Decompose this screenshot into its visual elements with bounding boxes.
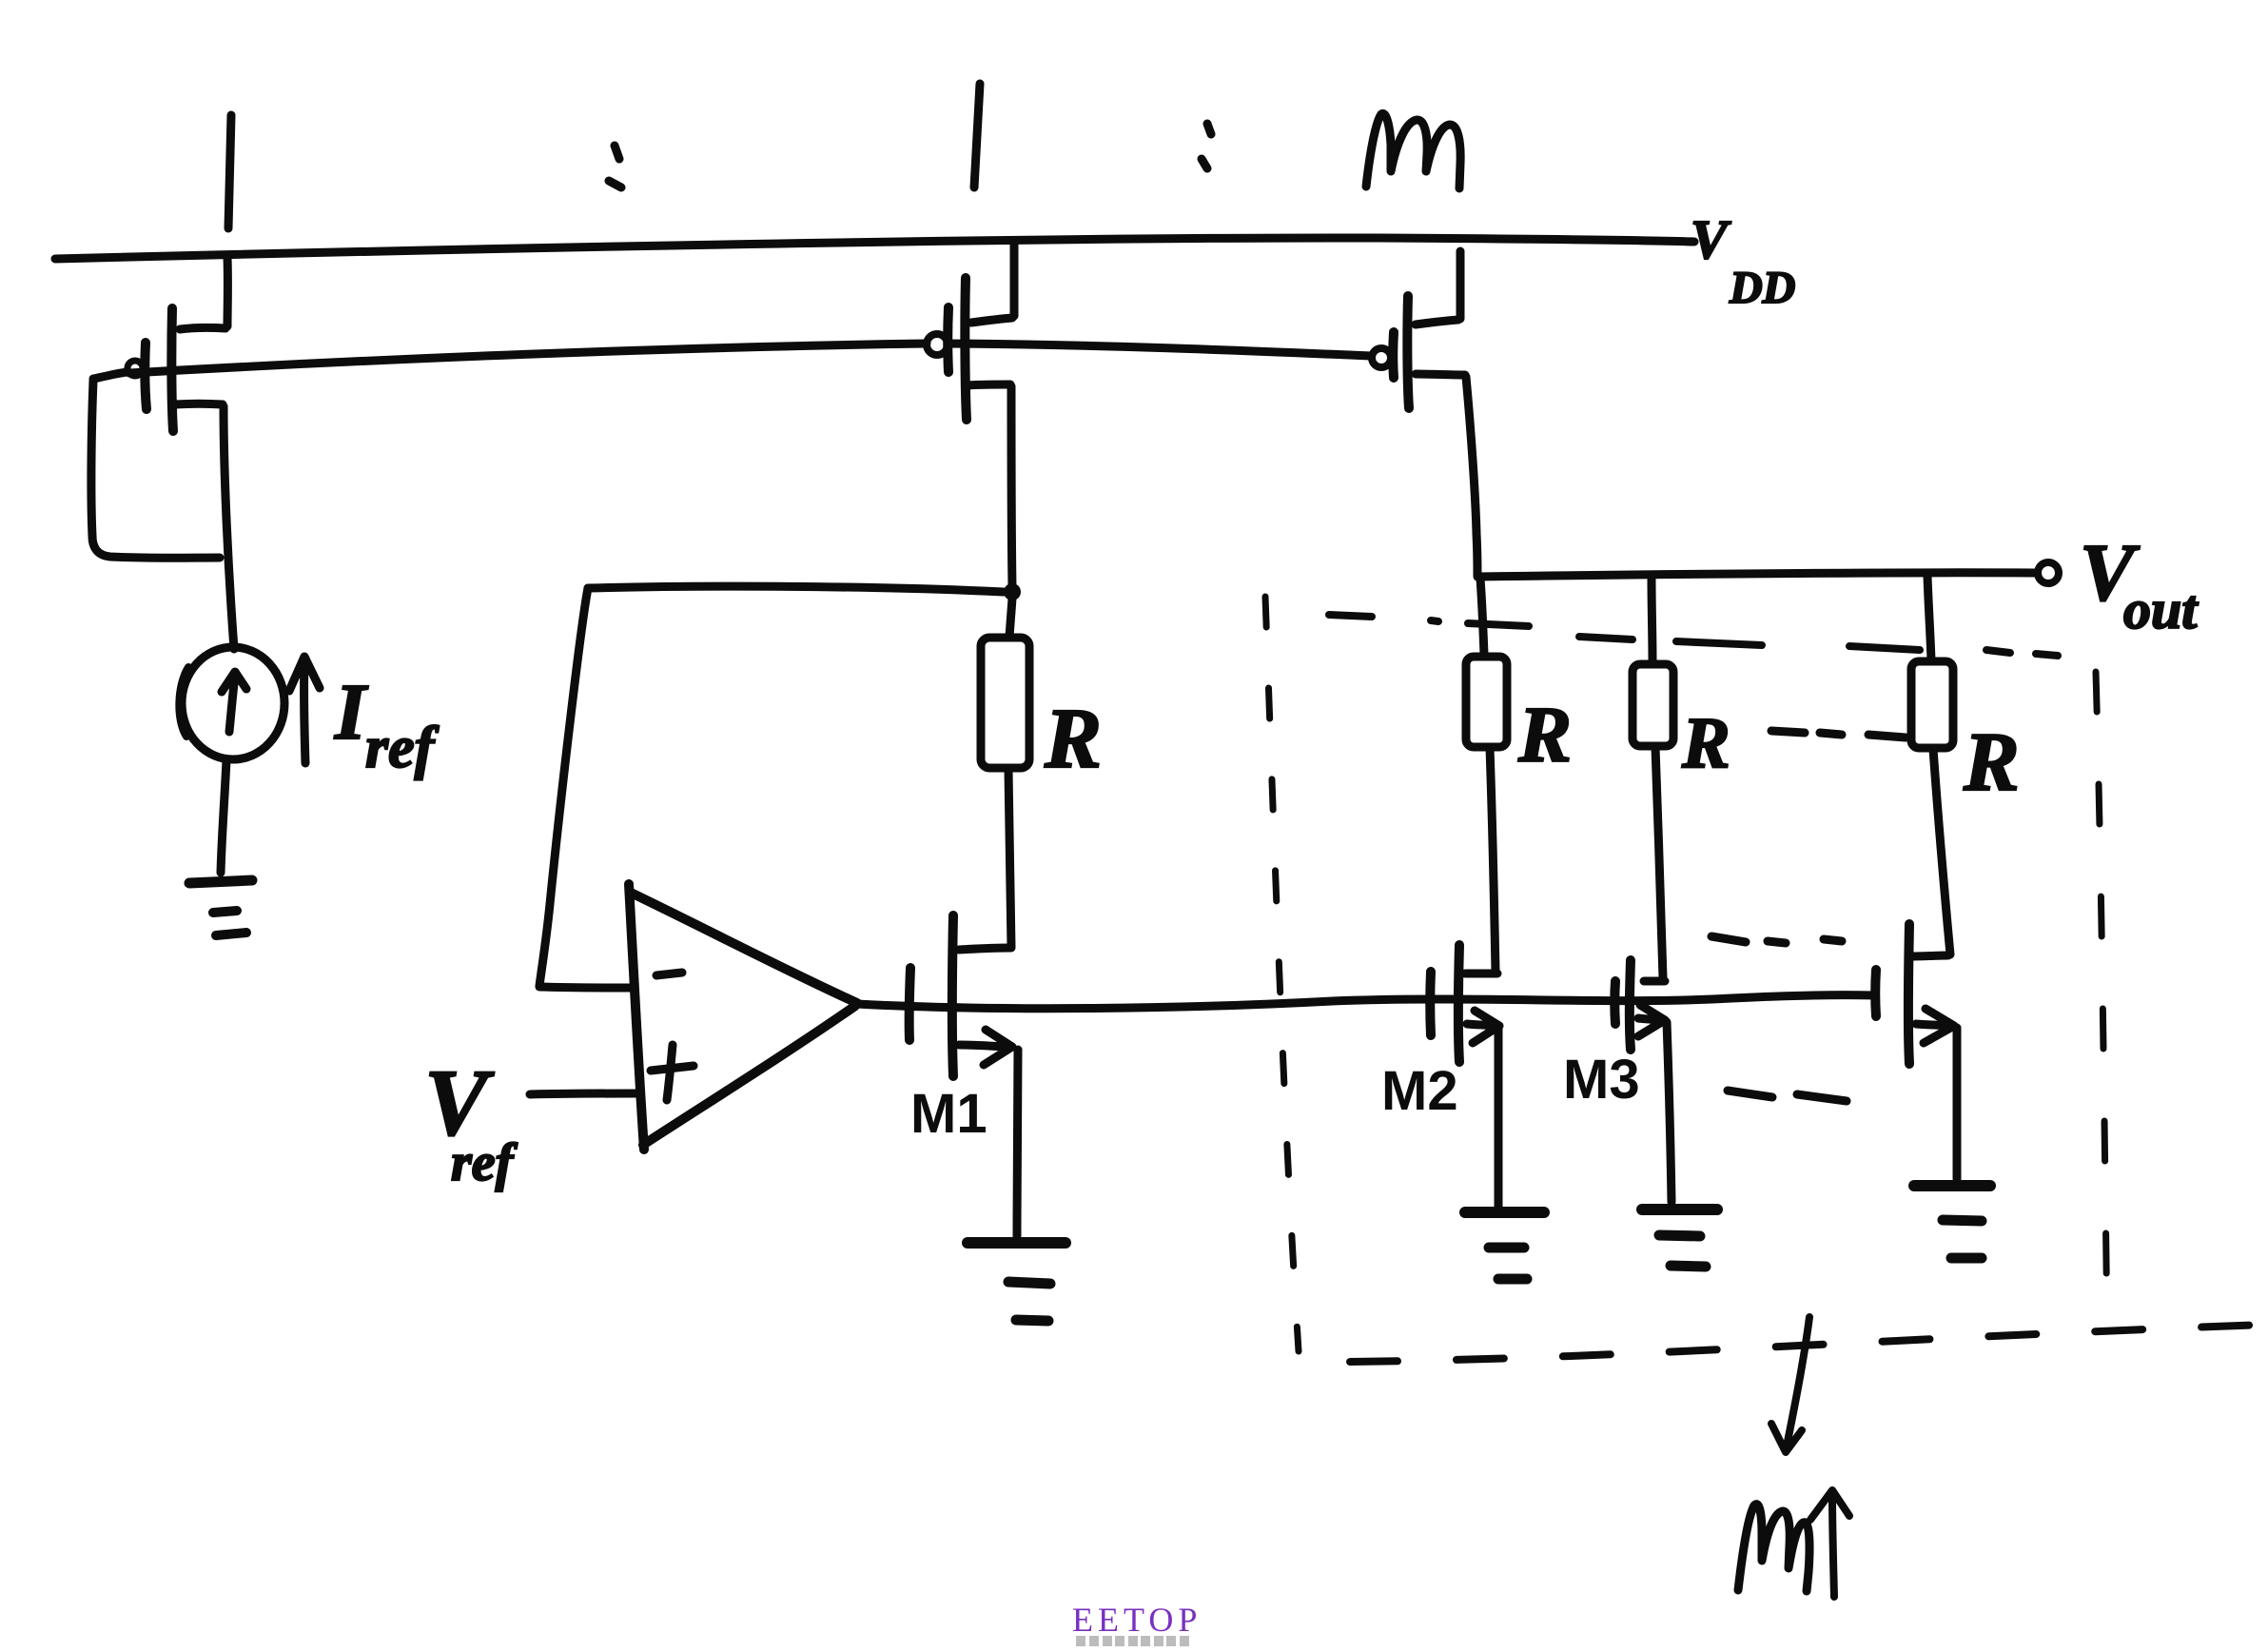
op-amp minus input label	[656, 973, 682, 975]
wire PMOS mirror gate bus	[129, 344, 1371, 373]
wire feedback to op-amp inverting input	[539, 987, 630, 988]
svg-text:DD: DD	[1729, 263, 1795, 313]
wire R1 bottom to M1 drain	[1008, 770, 1011, 948]
current source sketch double-stroke	[179, 667, 188, 737]
wire current source to ground	[221, 760, 226, 873]
ratio tick 1 (left)	[228, 115, 231, 228]
wire Mm source to ground	[1953, 1028, 1962, 1179]
resistor R3	[1633, 664, 1673, 746]
transistor M2 drain lead	[1465, 970, 1497, 978]
transistor M1 gate bar	[909, 968, 910, 1040]
ground (M3)	[1642, 1204, 1717, 1215]
dashed box top edge (dash-dot)	[1329, 615, 2058, 656]
wire branch 2 from Vout junction to R3	[1652, 579, 1652, 663]
wire R3 to M3 drain	[1655, 747, 1663, 978]
transistor M0 (diode-connected PMOS, left) source wire from VDD	[224, 257, 232, 326]
ground (M1)	[968, 1237, 1066, 1249]
transistor P2 gate bar	[1388, 332, 1398, 378]
transistor M0 gate lead	[93, 372, 127, 379]
svg-text:ref: ref	[365, 716, 440, 780]
op-amp U1 left edge	[629, 884, 644, 1150]
wire M3 source to ground	[1667, 1022, 1672, 1202]
transistor M0 gate bar	[145, 343, 147, 409]
node A (feedback node dot)	[1004, 583, 1021, 600]
op-amp U1 top edge	[631, 893, 857, 1003]
transistor Mm drain lead	[1910, 955, 1948, 956]
ground (M2)	[1465, 1207, 1544, 1218]
transistor P1 gate bubble	[927, 334, 948, 355]
svg-text:R: R	[1044, 692, 1102, 786]
transistor P1 source lead	[971, 318, 1012, 323]
transistor M0 source lead	[180, 327, 225, 329]
Vout rail	[1477, 573, 2036, 577]
wire NMOS gate bus from op-amp output	[857, 995, 1875, 1009]
arrow Iref direction (beside circle)	[289, 657, 320, 763]
svg-text:R: R	[1681, 703, 1730, 783]
ellipsis dashes between R3 and R4	[1771, 731, 1906, 737]
wire branch 3 from Vout junction to R4	[1927, 576, 1931, 660]
resistor R1	[981, 638, 1029, 768]
transistor P2 source lead	[1416, 320, 1458, 324]
ratio label m (handwritten)	[1366, 113, 1460, 188]
transistor P1 channel bar	[965, 278, 967, 420]
transistor Mm channel bar	[1908, 924, 1909, 1064]
svg-text:M2: M2	[1381, 1060, 1458, 1122]
transistor P2 drain lead	[1416, 374, 1465, 375]
transistor Mm source lead with arrow	[1916, 1009, 1954, 1043]
wire P2 drain down to Vout rail	[1466, 377, 1477, 576]
VDD rail	[55, 238, 1694, 259]
transistor P1 (middle PMOS) source wire from VDD	[1010, 241, 1019, 316]
transistor M3 drain lead	[1644, 977, 1665, 986]
svg-text:I: I	[334, 668, 369, 757]
ground (Mm)	[1914, 1180, 1990, 1191]
wire P1 drain down to node A	[1011, 386, 1012, 586]
ground (current source)	[189, 880, 252, 883]
current source internal up arrow	[222, 672, 246, 732]
arrow up (bottom m count)	[1810, 1490, 1849, 1597]
arrow into dashed box (m replicas)	[1771, 1317, 1809, 1452]
transistor M1 drain lead	[959, 948, 1010, 950]
resistor R2	[1466, 657, 1507, 747]
transistor M3 channel bar	[1630, 960, 1631, 1050]
watermark Chinese subtitle (drawn as gray glyph blocks)	[1076, 1636, 1189, 1646]
svg-text:out: out	[2123, 579, 2199, 640]
transistor P2 gate bubble	[1372, 348, 1391, 367]
resistor R4	[1911, 661, 1953, 748]
wire branch 1 from Vout junction to R2	[1480, 579, 1484, 655]
wire node A to resistor R1	[1009, 599, 1012, 637]
dashed box bottom edge	[1350, 1325, 2264, 1362]
svg-text:ref: ref	[451, 1133, 518, 1192]
svg-text:R: R	[1963, 717, 2020, 809]
ellipsis dashes between M3 and Mm drains	[1711, 936, 1842, 943]
terminal Vout (open circle)	[2038, 562, 2059, 583]
transistor P2 (right PMOS) source wire from VDD	[1457, 251, 1465, 319]
transistor M2 source lead with arrow	[1467, 1011, 1499, 1043]
svg-text:V: V	[1691, 208, 1731, 270]
svg-text:R: R	[1517, 691, 1572, 779]
wire M2 source to ground	[1495, 1028, 1503, 1208]
dashed box left edge	[1265, 597, 1299, 1351]
transistor M0 channel bar	[171, 308, 173, 431]
ratio colon (left)	[609, 146, 621, 187]
op-amp plus input label	[651, 1045, 694, 1100]
transistor P1 gate bar	[943, 307, 953, 372]
transistor P2 channel bar	[1407, 296, 1409, 408]
transistor M3 gate bar	[1610, 981, 1620, 1024]
transistor M2 gate bar	[1425, 972, 1436, 1035]
transistor M1 channel bar	[952, 915, 953, 1076]
ratio colon (right)	[1202, 124, 1211, 168]
transistor M0 gate bubble	[127, 361, 143, 376]
ratio tick 1 (middle)	[974, 84, 980, 187]
wire M1 source to ground	[1017, 1050, 1018, 1236]
wire feedback top segment	[588, 586, 1004, 592]
current source Iref circle	[182, 647, 284, 759]
wire feedback left vertical	[539, 588, 588, 986]
transistor M0 drain lead	[175, 400, 223, 409]
wire M0 drain to current source	[224, 406, 234, 649]
svg-text:M3: M3	[1563, 1049, 1640, 1111]
label m (bottom, handwritten)	[1738, 1504, 1809, 1591]
transistor M1 source lead with arrow	[959, 1030, 1012, 1065]
wire R4 to Mm drain	[1933, 749, 1950, 954]
transistor Mm gate bar	[1870, 970, 1881, 1016]
transistor P1 drain lead	[967, 384, 1010, 385]
svg-text:EETOP: EETOP	[1072, 1601, 1202, 1639]
svg-text:M1: M1	[910, 1083, 987, 1145]
ellipsis dashes between M3 and Mm sources	[1728, 1091, 1847, 1101]
wire Vref to op-amp non-inverting input	[530, 1093, 638, 1094]
transistor M2 channel bar	[1458, 945, 1459, 1062]
dashed box right edge	[2096, 672, 2107, 1327]
wire M0 gate-drain diode connection loop	[91, 381, 220, 558]
wire R2 to M2 drain	[1490, 748, 1496, 972]
transistor M3 source lead with arrow	[1638, 1005, 1665, 1036]
op-amp U1 bottom edge	[643, 1006, 855, 1145]
